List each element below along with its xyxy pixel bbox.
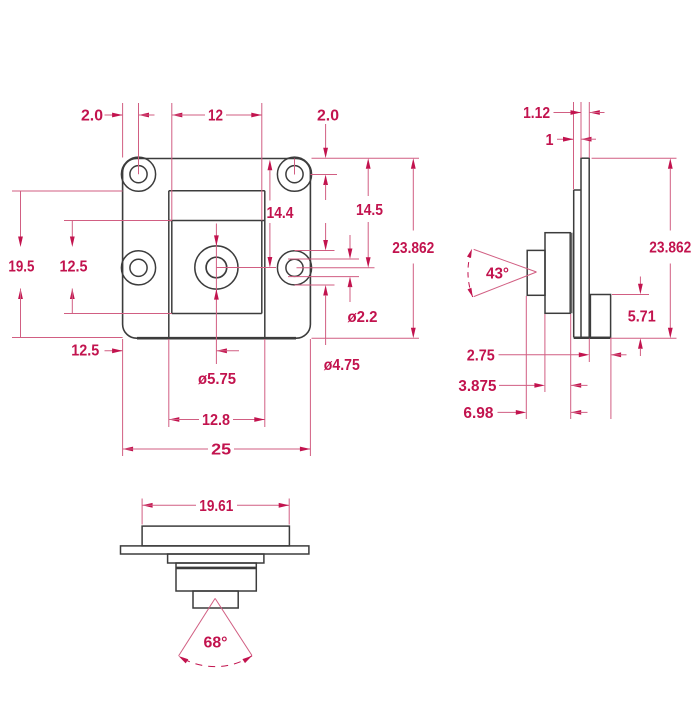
- dimension 2.75 (connector depth): [467, 347, 627, 364]
- front view: mounting hole 3 outer ø4.75: [121, 251, 155, 285]
- extension line: connector rear (bottom): [610, 339, 612, 420]
- extension line: housing top to left: [12, 190, 123, 192]
- front view: sensor housing outer rectangle: [169, 191, 265, 338]
- dimension 3.875 (holder depth): [458, 378, 587, 395]
- extension line: holder front (bottom): [544, 314, 546, 392]
- front view: mounting hole 1 inner ø2.2: [130, 166, 147, 183]
- dimension 23.862 (side view height): [592, 158, 692, 338]
- svg-text:19.5: 19.5: [8, 259, 34, 276]
- dimension 14.5 (plate top to hole 4 center): [356, 158, 383, 267]
- svg-text:12.5: 12.5: [60, 259, 88, 276]
- dimension 12.8 (housing width): [169, 412, 265, 429]
- dimension 14.4 (plate top to lens center): [267, 160, 294, 268]
- extension line: plate left edge (bottom): [122, 339, 124, 456]
- svg-text:43°: 43°: [486, 266, 509, 283]
- extension line: PCB rear face (top): [588, 102, 590, 158]
- extension line: plate bottom to left: [12, 337, 123, 339]
- extension line: barrel front (bottom): [525, 296, 527, 419]
- view cone 43deg: dashed angle arc: [468, 249, 473, 297]
- svg-text:2.75: 2.75: [467, 347, 495, 364]
- svg-text:5.71: 5.71: [628, 309, 656, 326]
- extension line: PCB rear (bottom): [588, 339, 590, 363]
- dimension 19.61 (body width): [142, 498, 289, 515]
- bottom view: main body: [142, 526, 289, 546]
- front view: mounting hole 2 inner ø2.2: [286, 166, 303, 183]
- svg-text:6.98: 6.98: [463, 405, 493, 422]
- svg-text:1: 1: [546, 132, 554, 149]
- dimension ø4.75 (hole boss): [323, 223, 360, 374]
- svg-text:12.5: 12.5: [71, 342, 99, 359]
- front view: camera board plate outline: [123, 159, 311, 339]
- dimension 25 (plate width): [123, 442, 311, 459]
- bottom view: lens holder block: [176, 563, 256, 591]
- side view: housing plate strip: [574, 190, 581, 337]
- extension line: inner rect top to left: [64, 220, 172, 222]
- extension line: body left (19.61): [141, 499, 143, 525]
- front view: mounting hole 1 outer ø4.75: [121, 157, 155, 191]
- svg-text:25: 25: [211, 442, 231, 459]
- svg-text:12: 12: [208, 107, 223, 124]
- side view: bottom thick edge: [574, 337, 611, 339]
- dimension 2.0 (top right): [317, 107, 339, 200]
- extension line: housing right (bottom): [264, 339, 266, 427]
- extension line: plate right edge (bottom): [309, 339, 311, 456]
- front view: mounting hole 3 inner ø2.2: [130, 259, 147, 276]
- svg-text:23.862: 23.862: [392, 240, 434, 257]
- extension line: inner rect left (top): [171, 103, 173, 221]
- front view: mounting hole 4 inner ø2.2: [286, 259, 303, 276]
- front view: lens barrel circle ø5.75: [195, 246, 238, 289]
- view cone 68deg: arc arrowhead: [179, 656, 189, 663]
- view cone 68deg: dashed angle arc: [179, 656, 253, 667]
- extension line: holder rear (bottom): [570, 314, 572, 419]
- dimension ø2.2 (hole bore): [348, 235, 378, 326]
- leader: hole 4 inner top: [288, 258, 359, 260]
- extension line: inner rect bottom to left: [64, 313, 172, 315]
- extension line: PCB front face (top): [580, 102, 582, 158]
- extension line: plate bottom edge to right: [312, 337, 420, 339]
- view cone 68deg: left edge: [179, 598, 216, 656]
- leader: hole 4 outer top: [295, 250, 335, 252]
- bottom view: step 1: [168, 554, 264, 563]
- svg-text:3.875: 3.875: [458, 378, 496, 395]
- extension line: hole 1 centerline (top): [138, 103, 140, 174]
- bottom view: lens barrel: [193, 591, 238, 608]
- dimension 2.0 (top left): [81, 107, 155, 124]
- label 68deg: [204, 634, 228, 651]
- svg-text:14.4: 14.4: [267, 205, 294, 222]
- view cone 43deg: upper edge: [474, 249, 537, 272]
- extension line: housing left (bottom): [168, 339, 170, 427]
- bottom view: flange plate: [121, 546, 309, 554]
- front view: housing divider line: [169, 220, 265, 222]
- svg-text:23.862: 23.862: [649, 240, 691, 257]
- extension line: inner rect right (top): [261, 103, 263, 221]
- leader: hole 2 centerline: [295, 159, 338, 175]
- side view: PCB: [581, 158, 589, 337]
- dimension 23.862 (front view height): [392, 158, 434, 338]
- svg-text:14.5: 14.5: [356, 202, 383, 219]
- dimension 1.12 (PCB thickness): [523, 105, 604, 122]
- front view: lens cavity inner rectangle: [172, 221, 262, 314]
- svg-text:ø5.75: ø5.75: [198, 371, 236, 388]
- front view: mounting hole 4 outer ø4.75: [277, 251, 311, 285]
- view cone 68deg: right edge: [215, 598, 252, 655]
- view cone 43deg: arc arrowhead: [468, 288, 473, 297]
- leader: lens centerline right: [216, 267, 276, 269]
- leader: hole 4 centerline right: [297, 267, 375, 269]
- extension line: plate top edge to right: [312, 157, 420, 159]
- dimension ø5.75 (lens barrel) vertical arrows and centerline: [214, 224, 219, 365]
- extension line: plate left edge (top): [122, 103, 124, 158]
- dimension 5.71 (connector height): [612, 277, 656, 357]
- extension line: body right (19.61): [288, 499, 290, 525]
- svg-text:2.0: 2.0: [317, 107, 339, 124]
- label ø5.75: [198, 371, 236, 388]
- svg-text:ø4.75: ø4.75: [324, 357, 360, 374]
- side view: rear connector: [590, 295, 610, 338]
- svg-text:68°: 68°: [204, 634, 228, 651]
- svg-text:19.61: 19.61: [199, 498, 233, 515]
- side view: holder lip line: [571, 233, 573, 314]
- svg-text:2.0: 2.0: [81, 107, 103, 124]
- dimension 12 (top): [172, 107, 262, 124]
- label 43deg: [486, 266, 509, 283]
- svg-text:1.12: 1.12: [523, 105, 550, 122]
- dimension 1 (strip thickness): [546, 132, 597, 149]
- view cone 43deg: lower edge: [474, 272, 537, 297]
- svg-text:ø2.2: ø2.2: [348, 309, 378, 326]
- view cone 43deg: arc arrowhead: [467, 249, 472, 258]
- dimension 12.5 (left, lens cavity height): [60, 221, 88, 314]
- dimension 6.98 (lens total depth): [463, 405, 587, 422]
- leader: hole 4 inner bottom: [288, 276, 359, 278]
- side view: lens holder: [545, 233, 570, 314]
- svg-text:12.8: 12.8: [202, 412, 230, 429]
- front view: mounting hole 2 outer ø4.75: [277, 157, 311, 191]
- bottom view: holder seam thick line: [176, 567, 256, 570]
- dimension 12.5 (bottom, edge to lens center): [71, 342, 239, 359]
- dimension 19.5 (left): [8, 191, 34, 338]
- side view: lens barrel: [527, 250, 545, 295]
- leader: hole 4 outer bottom: [295, 284, 335, 286]
- extension line: strip front face (top): [573, 102, 575, 190]
- front view: lens aperture circle: [206, 257, 227, 278]
- view cone 68deg: arc arrowhead: [242, 656, 252, 663]
